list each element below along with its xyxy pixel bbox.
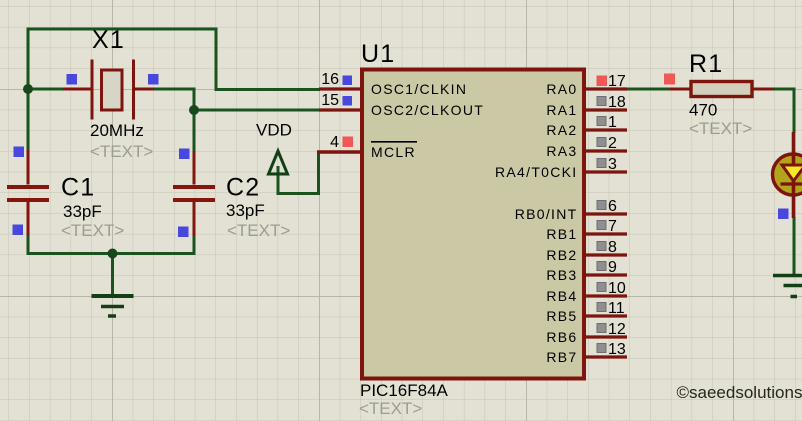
svg-text:RB0/INT: RB0/INT xyxy=(515,206,578,222)
wire: junction to crystal left lead xyxy=(28,88,64,91)
LED D1 xyxy=(773,132,802,218)
marker: C2 top pin xyxy=(179,149,190,160)
svg-text:12: 12 xyxy=(608,321,626,338)
marker: pin 17 xyxy=(597,76,608,87)
marker: pin 13 xyxy=(597,344,606,353)
terminal squares (blue pin-end markers) xyxy=(13,74,789,237)
svg-text:6: 6 xyxy=(608,198,617,215)
svg-text:RA2: RA2 xyxy=(546,122,577,138)
svg-text:<TEXT>: <TEXT> xyxy=(689,119,752,138)
marker: pin 11 xyxy=(597,303,606,312)
pin 10 RB4 stub xyxy=(584,294,627,297)
wire: pin17 (RA0) to R1 xyxy=(627,88,671,91)
svg-text:15: 15 xyxy=(321,92,339,109)
pin 4 MCLR stub xyxy=(317,150,361,154)
pin 8 RB2 stub xyxy=(584,253,627,256)
svg-text:RA4/T0CKI: RA4/T0CKI xyxy=(495,164,578,180)
svg-text:X1: X1 xyxy=(92,26,125,54)
wire: node down to C2 top pin xyxy=(193,110,196,151)
pin 3 RA4/T0CKI stub xyxy=(584,170,627,173)
svg-text:16: 16 xyxy=(321,71,339,88)
wire: C1 bottom to ground bus xyxy=(27,236,30,254)
resistor R1 xyxy=(670,88,774,91)
pin 9 RB3 stub xyxy=(584,273,627,276)
svg-text:<TEXT>: <TEXT> xyxy=(90,142,153,161)
marker: C1 bottom pin xyxy=(13,225,24,236)
marker: pin 3 xyxy=(597,159,606,168)
wire: top loop horizontal xyxy=(27,28,218,31)
red markers xyxy=(343,74,676,148)
wire: VDD symbol to corner xyxy=(278,152,319,194)
power VDD symbol xyxy=(269,151,288,174)
wire: crystal right lead to corner at x=194 xyxy=(154,88,196,91)
marker: pin 7 xyxy=(597,221,606,230)
svg-text:RB2: RB2 xyxy=(546,247,577,263)
pin 2 RA3 stub xyxy=(584,149,627,152)
svg-text:R1: R1 xyxy=(689,50,723,78)
svg-text:RB3: RB3 xyxy=(546,267,577,283)
pin 15 OSC2/CLKOUT stub xyxy=(319,108,361,111)
capacitor C2 xyxy=(173,151,215,236)
pin 13 RB7 stub xyxy=(584,355,627,358)
wire: left vertical from top loop down to C1 xyxy=(27,28,30,151)
crystal X1 xyxy=(63,60,154,120)
svg-text:OSC1/CLKIN: OSC1/CLKIN xyxy=(371,81,467,97)
marker: pin 16 xyxy=(343,76,353,86)
svg-text:33pF: 33pF xyxy=(63,202,102,221)
svg-text:U1: U1 xyxy=(361,40,395,68)
IC U1: PIC16F84A body xyxy=(362,70,584,379)
marker: pin 10 xyxy=(597,283,606,292)
svg-text:C2: C2 xyxy=(226,174,260,202)
marker: pin 12 xyxy=(597,324,606,333)
pin 16 OSC1/CLKIN stub xyxy=(319,87,361,90)
svg-text:PIC16F84A: PIC16F84A xyxy=(360,381,449,400)
svg-text:RA3: RA3 xyxy=(546,143,577,159)
pin 6 RB0/INT stub xyxy=(584,212,627,215)
marker: LED bottom pin xyxy=(778,209,789,220)
svg-text:<TEXT>: <TEXT> xyxy=(227,221,290,240)
node C: junction on ground bus (112.5,253.5) xyxy=(108,249,118,259)
svg-text:7: 7 xyxy=(608,218,617,235)
svg-text:<TEXT>: <TEXT> xyxy=(359,399,422,418)
svg-text:17: 17 xyxy=(608,73,626,90)
ground (left, below bus) xyxy=(92,296,134,316)
svg-text:©saeedsolutions.blo: ©saeedsolutions.blo xyxy=(677,383,802,402)
svg-text:9: 9 xyxy=(608,259,617,276)
marker: C1 top pin xyxy=(14,147,25,158)
marker: X1 left pin xyxy=(67,74,78,85)
wire: LED bottom to right ground xyxy=(793,217,796,275)
svg-text:VDD: VDD xyxy=(256,121,292,140)
svg-text:33pF: 33pF xyxy=(226,201,265,220)
svg-text:RA0: RA0 xyxy=(546,81,577,97)
svg-text:1: 1 xyxy=(608,114,617,131)
marker: pin 2 xyxy=(597,138,606,147)
svg-text:MCLR: MCLR xyxy=(371,144,416,160)
pin 11 RB5 stub xyxy=(584,314,627,317)
wire: ground stem below bus xyxy=(111,254,114,297)
svg-text:3: 3 xyxy=(608,156,617,173)
wire: corner down to node at (194,110) xyxy=(193,88,196,111)
node B: junction at (194,110) xyxy=(189,105,199,115)
marker: pin 8 xyxy=(597,242,606,251)
pin 18 RA1 stub xyxy=(584,108,627,111)
marker: pin 15 xyxy=(343,96,353,106)
ground (right, below LED) xyxy=(773,276,802,297)
wire: top-loop corner to pin16 (OSC1) xyxy=(215,88,321,91)
svg-text:13: 13 xyxy=(608,341,626,358)
marker: R1 left pin xyxy=(664,74,675,85)
svg-text:4: 4 xyxy=(330,134,339,151)
svg-text:RB4: RB4 xyxy=(546,288,577,304)
wire: top loop right vertical down xyxy=(215,28,218,91)
marker: pin 1 xyxy=(597,117,606,126)
svg-text:10: 10 xyxy=(608,280,626,297)
wire: ground bus horizontal xyxy=(27,252,195,255)
wire: node to pin15 (OSC2) horizontal xyxy=(194,109,320,112)
svg-text:OSC2/CLKOUT: OSC2/CLKOUT xyxy=(371,102,484,118)
grey markers xyxy=(597,97,606,353)
svg-text:C1: C1 xyxy=(61,174,95,202)
svg-text:RB6: RB6 xyxy=(546,329,577,345)
marker: X1 right pin xyxy=(148,74,159,85)
svg-text:RB5: RB5 xyxy=(546,308,577,324)
svg-text:18: 18 xyxy=(608,94,626,111)
node A: junction at left vertical (28,89) xyxy=(23,84,33,94)
capacitor C1 xyxy=(7,150,49,236)
svg-text:8: 8 xyxy=(608,239,617,256)
svg-text:2: 2 xyxy=(608,135,617,152)
marker: pin 4 xyxy=(343,137,354,148)
svg-text:RA1: RA1 xyxy=(546,102,577,118)
svg-text:RB7: RB7 xyxy=(546,349,577,365)
svg-text:20MHz: 20MHz xyxy=(90,121,144,140)
marker: pin 9 xyxy=(597,262,606,271)
marker: pin 18 xyxy=(597,97,606,106)
svg-text:470: 470 xyxy=(689,101,717,120)
pin 17 RA0 stub xyxy=(584,87,627,90)
pin 12 RB6 stub xyxy=(584,335,627,338)
wire: R1 right lead to LED xyxy=(773,88,794,134)
marker: C2 bottom pin xyxy=(178,227,189,238)
svg-text:<TEXT>: <TEXT> xyxy=(61,221,124,240)
marker: pin 6 xyxy=(597,201,606,210)
pin 1 RA2 stub xyxy=(584,128,627,131)
svg-text:11: 11 xyxy=(608,300,625,317)
pin 7 RB1 stub xyxy=(584,232,627,235)
svg-text:RB1: RB1 xyxy=(546,226,577,242)
wire: C2 bottom to ground bus xyxy=(193,236,196,255)
